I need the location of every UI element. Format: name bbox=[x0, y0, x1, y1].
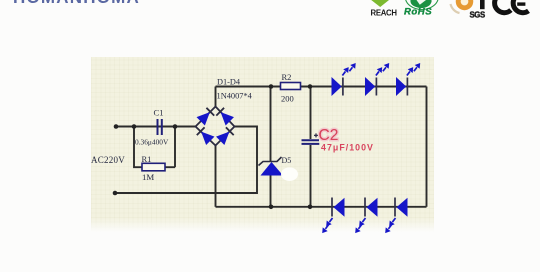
LED bottom 1 bbox=[321, 198, 344, 234]
LED bottom 2 bbox=[354, 198, 377, 234]
wire AC top to C1 to bridge left bbox=[116, 126, 196, 128]
svg-text:AC220V: AC220V bbox=[91, 155, 125, 165]
watermark logo text (cut off at top) bbox=[13, 0, 141, 3]
wire bottom rail bbox=[216, 206, 427, 208]
labels bbox=[91, 72, 294, 182]
LED top 3 bbox=[396, 63, 421, 96]
diode D4 (bottom-right, points NE) bbox=[216, 127, 234, 145]
junction dots bbox=[113, 84, 313, 209]
resistor R2 box bbox=[281, 83, 301, 90]
svg-text:R2: R2 bbox=[282, 72, 292, 82]
wire right side vertical bbox=[426, 87, 428, 207]
LED top 2 bbox=[365, 63, 390, 96]
svg-text:C1: C1 bbox=[154, 108, 164, 118]
schematic beige panel with grid bbox=[91, 57, 434, 232]
LED bottom 3 bbox=[384, 198, 407, 234]
wire top rail bbox=[216, 86, 427, 88]
wire bridge top to rail bbox=[215, 87, 217, 107]
LED top 1 bbox=[332, 63, 357, 96]
RoHS leaf logo bbox=[410, 0, 431, 8]
svg-text:1N4007*4: 1N4007*4 bbox=[217, 92, 253, 101]
node AC top terminal bbox=[114, 124, 119, 129]
wire R1 parallel branch bbox=[134, 127, 175, 168]
capacitor C1 plates bbox=[158, 119, 162, 135]
certification logos top-right bbox=[0, 0, 540, 30]
C2 plus sign bbox=[314, 133, 318, 137]
node C1/R1 left junction bbox=[132, 124, 137, 129]
diode D2 (top-right, points NW) bbox=[216, 108, 234, 126]
node C1/R1 right junction bbox=[173, 124, 178, 129]
REACH logo green chevron bbox=[371, 0, 389, 7]
capacitor C2 plates bbox=[302, 140, 320, 144]
svg-text:D1-D4: D1-D4 bbox=[217, 78, 241, 87]
wire bridge bottom to rail bbox=[215, 146, 217, 207]
node AC bottom terminal bbox=[113, 191, 118, 196]
SGS ring logo bbox=[460, 0, 468, 5]
svg-text:R1: R1 bbox=[142, 154, 152, 164]
wire D5 branch bbox=[270, 87, 272, 207]
CE mark E bbox=[513, 0, 528, 13]
svg-text:200: 200 bbox=[281, 94, 294, 104]
label C2 (red watermark) bbox=[319, 127, 374, 153]
node C2 bottom junction bbox=[308, 205, 313, 210]
CE mark C bbox=[495, 0, 511, 13]
node D5 top junction bbox=[269, 84, 274, 89]
white highlight blob bbox=[281, 167, 298, 181]
wire AC bottom to bridge right bbox=[115, 127, 257, 194]
svg-text:C2: C2 bbox=[319, 127, 339, 144]
zener diode D5 bbox=[259, 157, 284, 176]
bridge rectifier diamond D1-D4 bbox=[196, 107, 235, 146]
diode D1 (top-left, points NE) bbox=[197, 108, 215, 126]
wire C2 branch bbox=[310, 87, 312, 207]
resistor R1 box bbox=[142, 163, 165, 171]
svg-text:1M: 1M bbox=[142, 172, 154, 182]
node C2 top junction bbox=[308, 84, 313, 89]
node D5 bottom junction bbox=[269, 205, 274, 210]
svg-text:47μF/100V: 47μF/100V bbox=[321, 143, 374, 153]
black bar (cut-off mark) bbox=[480, 0, 485, 9]
svg-text:D5: D5 bbox=[282, 156, 292, 165]
svg-text:0.36μ400V: 0.36μ400V bbox=[135, 138, 169, 147]
diode D3 (bottom-left, points NW) bbox=[197, 127, 215, 145]
